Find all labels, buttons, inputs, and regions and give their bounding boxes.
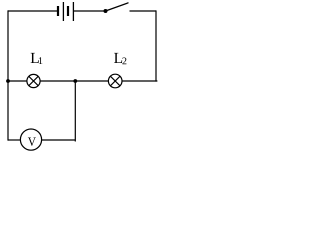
battery B1 <box>58 2 73 21</box>
switch S1 <box>104 3 129 13</box>
wire bottom-left segment <box>8 139 21 141</box>
wire right vertical <box>155 10 157 81</box>
voltmeter V <box>20 129 41 150</box>
node junction dot center <box>73 79 77 83</box>
lamp L1 <box>27 74 40 87</box>
long plate (positive) <box>62 2 64 21</box>
label L1 <box>31 53 43 64</box>
wire branch vertical <box>74 81 76 142</box>
wire switch to top-right corner <box>130 10 157 12</box>
lamp L2 <box>108 74 122 88</box>
wire left vertical <box>7 10 9 140</box>
label L2 <box>114 53 126 64</box>
short plate (negative) <box>57 6 59 16</box>
switch pivot dot <box>104 9 108 13</box>
wire middle-left segment <box>8 80 27 82</box>
node junction dot left <box>6 79 10 83</box>
wire middle-center segment <box>40 80 108 82</box>
wire battery to switch <box>74 10 106 12</box>
switch lever (open) <box>106 3 129 11</box>
long plate (positive) <box>72 2 74 21</box>
wire bottom-right segment <box>42 139 76 141</box>
short plate (negative) <box>67 6 69 16</box>
wire top-left segment <box>8 10 58 12</box>
wire middle-right segment <box>122 80 157 82</box>
